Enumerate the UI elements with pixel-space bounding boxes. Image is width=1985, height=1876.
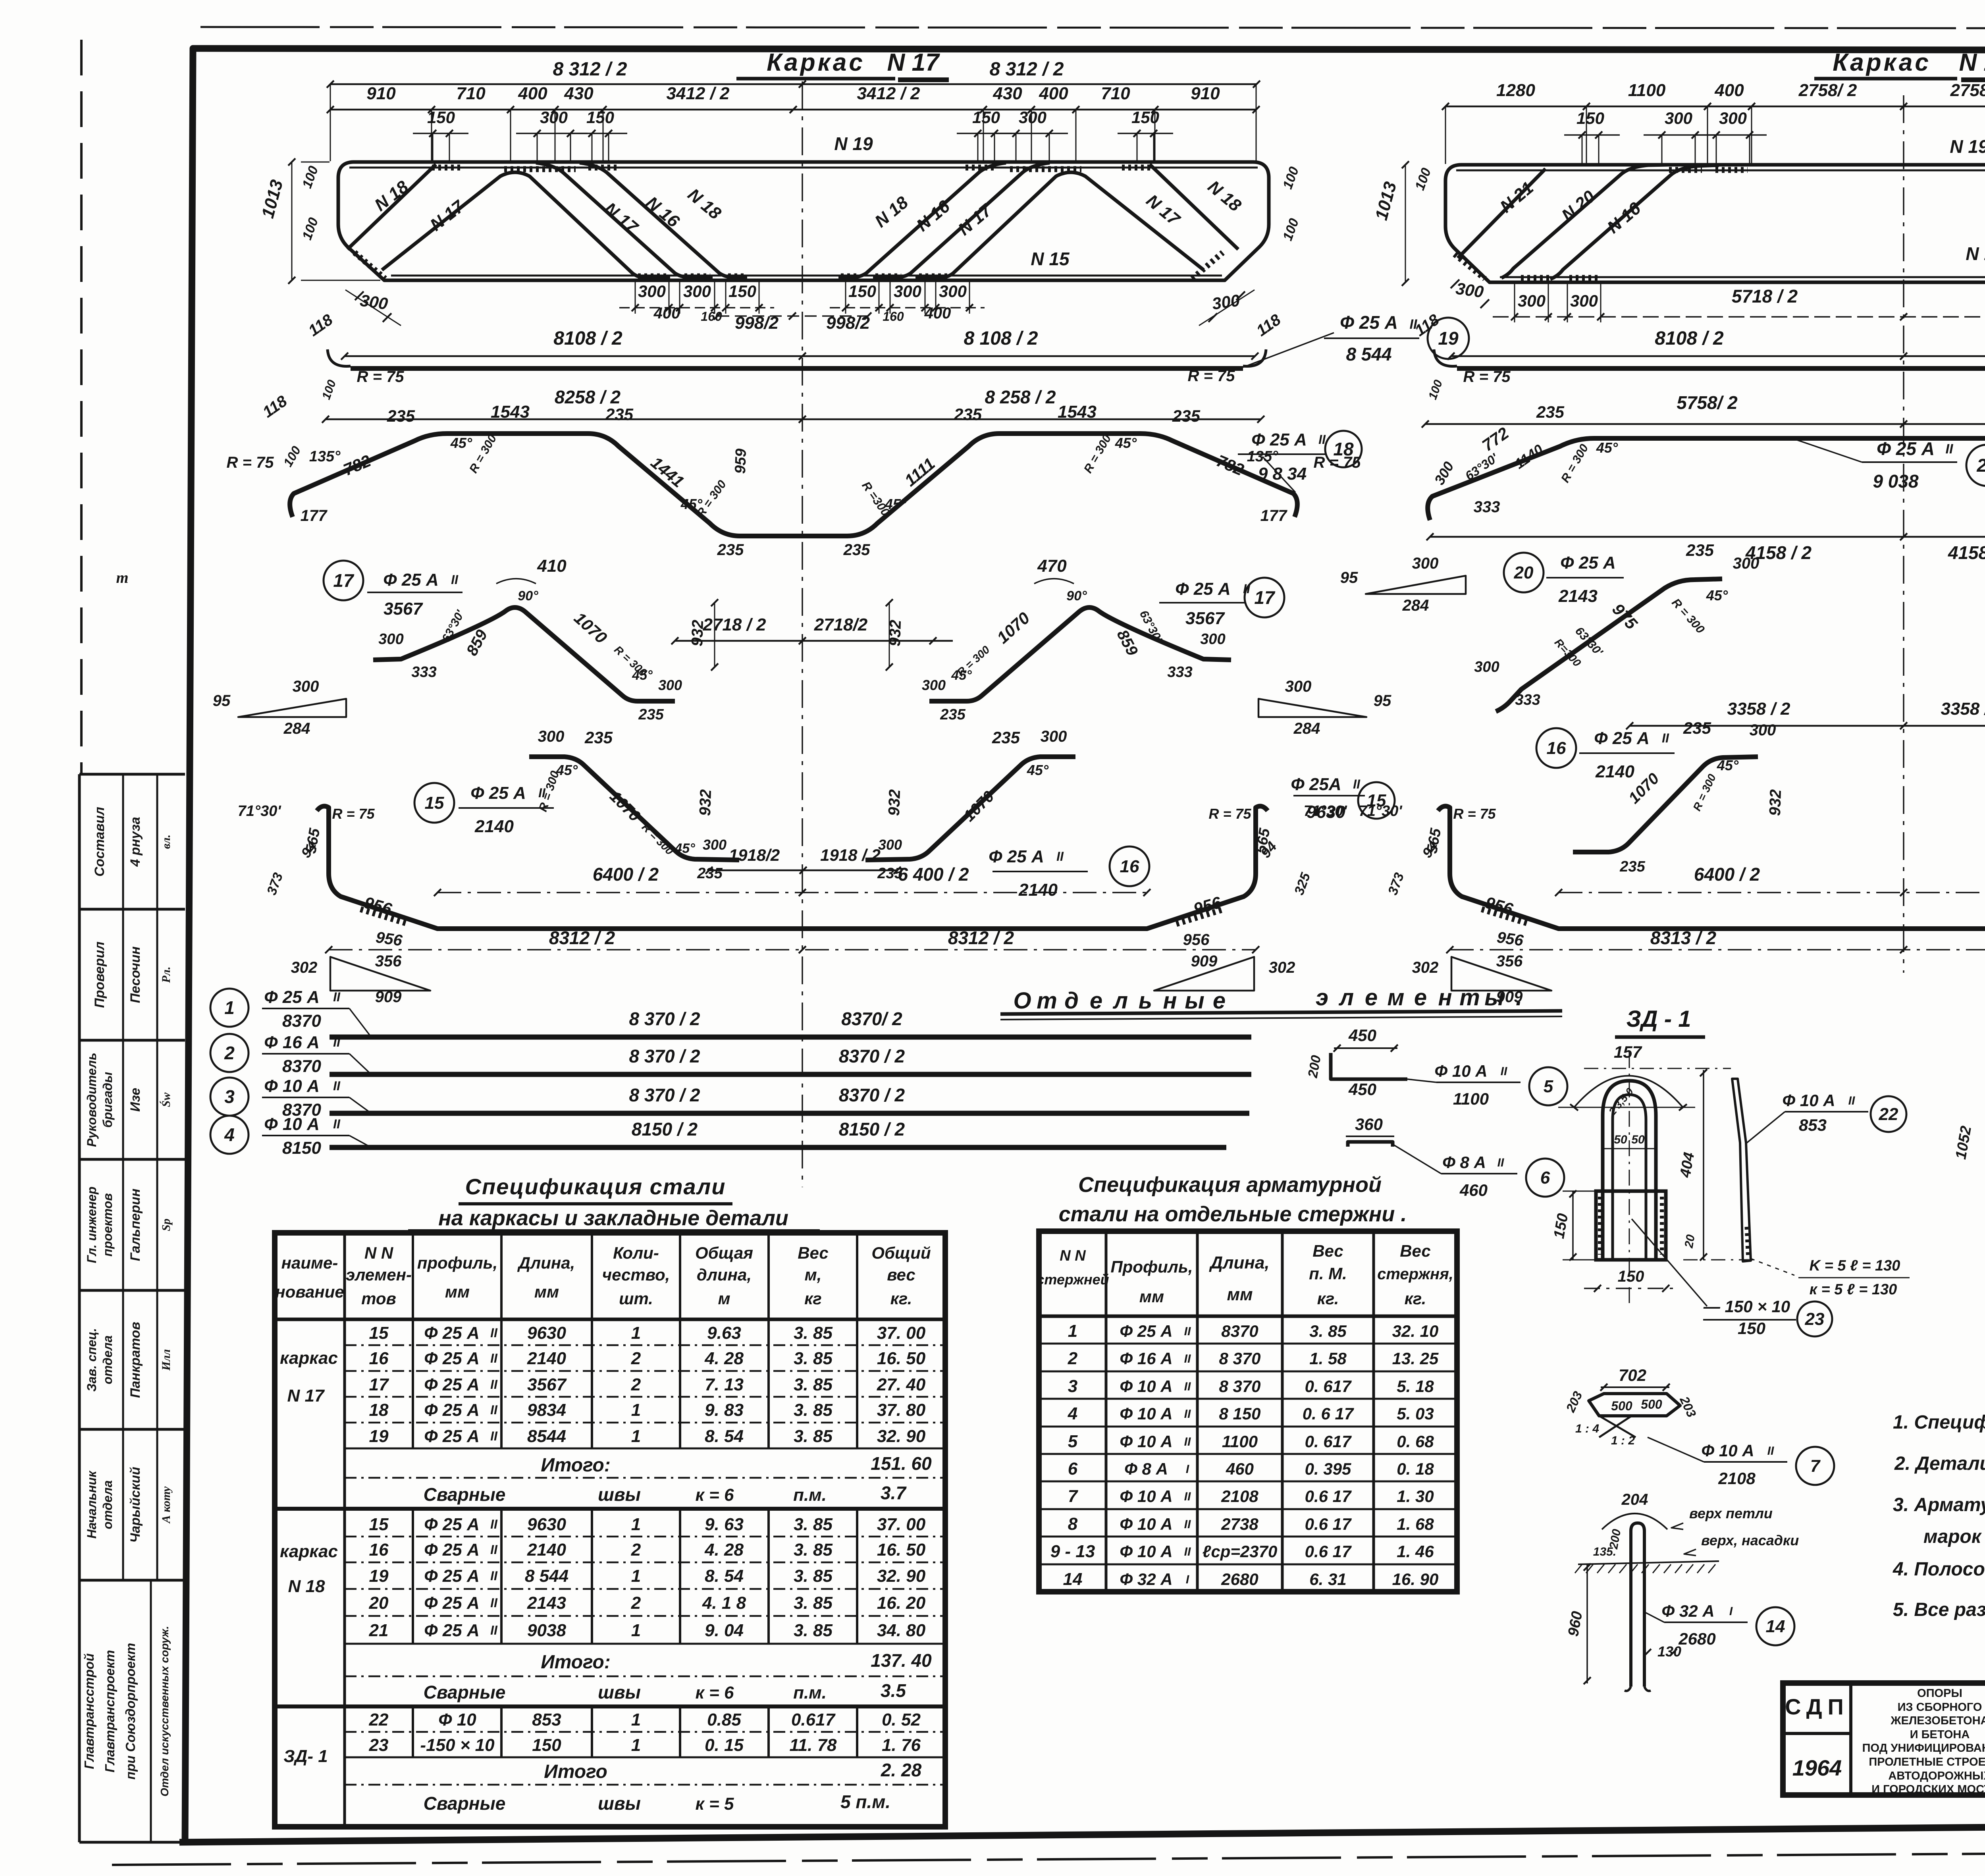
svg-text:3. 85: 3. 85 xyxy=(794,1593,833,1613)
svg-text:4: 4 xyxy=(1068,1404,1077,1423)
svg-text:элемен-: элемен- xyxy=(346,1265,412,1284)
svg-text:8 370 / 2: 8 370 / 2 xyxy=(629,1008,700,1029)
svg-text:2140: 2140 xyxy=(1595,762,1634,781)
svg-text:п.м.: п.м. xyxy=(793,1485,827,1505)
svg-text:N 15: N 15 xyxy=(1966,243,1985,264)
svg-text:8312 / 2: 8312 / 2 xyxy=(549,927,615,948)
svg-text:марок ВСт.3 и Ст.5 по ГОС: марок ВСт.3 и Ст.5 по ГОСТ 380 - 60 xyxy=(1923,1526,1985,1547)
svg-text:Ф 8 А: Ф 8 А xyxy=(1442,1153,1486,1172)
svg-text:356: 356 xyxy=(1496,952,1523,970)
svg-text:1100: 1100 xyxy=(1453,1089,1489,1108)
svg-text:0.6 17: 0.6 17 xyxy=(1305,1487,1352,1506)
svg-text:45°: 45° xyxy=(1027,762,1049,778)
svg-text:16. 20: 16. 20 xyxy=(877,1593,926,1613)
svg-text:95: 95 xyxy=(213,692,231,710)
svg-text:II: II xyxy=(1184,1352,1191,1365)
svg-text:Ф 16 А: Ф 16 А xyxy=(1120,1349,1172,1368)
svg-text:Ф 25 А: Ф 25 А xyxy=(1251,430,1307,449)
svg-text:вл.: вл. xyxy=(160,835,173,849)
svg-text:333: 333 xyxy=(1474,498,1500,516)
svg-text:Профиль,: Профиль, xyxy=(1110,1257,1193,1276)
svg-text:37. 00: 37. 00 xyxy=(877,1323,926,1343)
svg-text:Общая: Общая xyxy=(695,1244,753,1262)
svg-text:0. 6 17: 0. 6 17 xyxy=(1303,1404,1354,1423)
svg-text:45°: 45° xyxy=(1596,440,1618,456)
svg-text:м,: м, xyxy=(805,1265,822,1284)
svg-text:2: 2 xyxy=(224,1043,235,1063)
svg-text:R = 75: R = 75 xyxy=(1188,367,1235,385)
svg-text:N 17: N 17 xyxy=(887,49,940,76)
svg-text:бригады: бригады xyxy=(100,1072,115,1128)
svg-text:1: 1 xyxy=(224,997,235,1018)
svg-text:135°: 135° xyxy=(309,448,341,465)
svg-text:Ф 25 А: Ф 25 А xyxy=(383,570,439,590)
svg-text:8 544: 8 544 xyxy=(1346,344,1391,364)
svg-text:3358 / 2: 3358 / 2 xyxy=(1941,699,1985,719)
svg-text:Изе: Изе xyxy=(128,1088,143,1112)
svg-text:-150 × 10: -150 × 10 xyxy=(420,1735,495,1755)
svg-text:на каркасы и закладные де: на каркасы и закладные детали xyxy=(438,1206,788,1230)
svg-text:8 370 / 2: 8 370 / 2 xyxy=(629,1085,700,1105)
svg-text:И БЕТОНА: И БЕТОНА xyxy=(1910,1728,1970,1741)
svg-text:Ф 25 А: Ф 25 А xyxy=(424,1427,480,1446)
svg-text:II: II xyxy=(490,1429,498,1443)
svg-text:л: л xyxy=(1338,985,1354,1010)
svg-text:N 18: N 18 xyxy=(288,1577,325,1596)
svg-text:300: 300 xyxy=(1285,678,1312,695)
svg-text:2140: 2140 xyxy=(1018,880,1058,900)
svg-text:Главтрансстрой: Главтрансстрой xyxy=(82,1653,96,1769)
svg-text:450: 450 xyxy=(1348,1080,1376,1099)
svg-text:проектов: проектов xyxy=(100,1193,115,1257)
svg-text:333: 333 xyxy=(411,664,436,681)
svg-text:II: II xyxy=(1184,1545,1191,1558)
svg-text:I: I xyxy=(1186,1573,1189,1586)
svg-text:II: II xyxy=(490,1517,498,1531)
svg-text:Спецификация стали: Спецификация стали xyxy=(465,1174,726,1199)
svg-text:90°: 90° xyxy=(1066,588,1087,603)
svg-text:32. 10: 32. 10 xyxy=(1392,1322,1439,1340)
svg-text:0. 68: 0. 68 xyxy=(1397,1432,1434,1451)
svg-text:45°: 45° xyxy=(450,435,472,451)
svg-text:Гальперин: Гальперин xyxy=(128,1189,143,1261)
svg-text:956: 956 xyxy=(375,929,404,950)
svg-text:Гл. инженер: Гл. инженер xyxy=(85,1186,99,1263)
svg-text:45°: 45° xyxy=(674,841,695,856)
svg-text:профиль,: профиль, xyxy=(417,1253,498,1272)
svg-text:157: 157 xyxy=(1614,1043,1642,1061)
svg-text:1918 / 2: 1918 / 2 xyxy=(820,846,881,864)
svg-text:8544: 8544 xyxy=(527,1427,566,1446)
svg-text:Панкратов: Панкратов xyxy=(128,1322,143,1398)
svg-text:95: 95 xyxy=(1340,569,1358,586)
svg-text:20: 20 xyxy=(1514,563,1534,582)
svg-text:Коли-: Коли- xyxy=(613,1244,659,1262)
svg-text:Św: Św xyxy=(160,1092,173,1107)
svg-text:32. 90: 32. 90 xyxy=(877,1566,926,1586)
svg-text:Ф 32 А: Ф 32 А xyxy=(1661,1602,1714,1620)
svg-text:150: 150 xyxy=(1618,1268,1644,1285)
svg-text:Ф 8 А: Ф 8 А xyxy=(1124,1460,1168,1478)
svg-text:2140: 2140 xyxy=(474,817,514,836)
svg-text:Песочин: Песочин xyxy=(128,947,143,1003)
svg-text:2140: 2140 xyxy=(527,1540,566,1560)
svg-text:8313 / 2: 8313 / 2 xyxy=(1650,927,1717,948)
svg-text:1: 1 xyxy=(631,1735,641,1755)
svg-text:к = 5 ℓ = 130: к = 5 ℓ = 130 xyxy=(1810,1281,1897,1298)
svg-text:8258 / 2: 8258 / 2 xyxy=(555,387,621,407)
svg-text:ОПОРЫ: ОПОРЫ xyxy=(1917,1687,1962,1700)
svg-text:300: 300 xyxy=(1200,631,1225,648)
svg-text:450: 450 xyxy=(1348,1026,1376,1045)
svg-text:3567: 3567 xyxy=(384,599,423,619)
svg-text:Проверил: Проверил xyxy=(92,941,107,1008)
svg-text:Общий: Общий xyxy=(871,1244,931,1262)
svg-text:II: II xyxy=(333,1079,341,1093)
svg-text:932: 932 xyxy=(696,789,715,816)
svg-text:8370: 8370 xyxy=(282,1011,321,1031)
svg-text:ПРОЛЕТНЫЕ СТРОЕНИЯ: ПРОЛЕТНЫЕ СТРОЕНИЯ xyxy=(1869,1756,1985,1768)
svg-text:R = 75: R = 75 xyxy=(1208,806,1251,822)
svg-text:шт.: шт. xyxy=(619,1289,653,1308)
svg-text:Ф 32 А: Ф 32 А xyxy=(1120,1570,1172,1589)
svg-text:300: 300 xyxy=(638,282,666,301)
svg-text:ℓср=2370: ℓср=2370 xyxy=(1203,1542,1278,1561)
svg-text:235: 235 xyxy=(1686,541,1714,559)
svg-text:9 8 34: 9 8 34 xyxy=(1258,464,1307,484)
svg-text:1. 30: 1. 30 xyxy=(1397,1487,1434,1506)
svg-text:9834: 9834 xyxy=(527,1400,566,1420)
svg-text:АВТОДОРОЖНЫХ: АВТОДОРОЖНЫХ xyxy=(1888,1770,1985,1782)
svg-text:300: 300 xyxy=(1041,728,1067,745)
svg-text:Sp: Sp xyxy=(160,1219,173,1231)
svg-text:150: 150 xyxy=(1576,109,1604,127)
svg-text:9. 83: 9. 83 xyxy=(705,1400,744,1420)
svg-text:8: 8 xyxy=(1068,1514,1078,1534)
svg-text:9630: 9630 xyxy=(1307,802,1345,822)
svg-text:0.6 17: 0.6 17 xyxy=(1305,1542,1352,1561)
svg-text:ИЗ СБОРНОГО: ИЗ СБОРНОГО xyxy=(1898,1701,1982,1714)
svg-text:235: 235 xyxy=(843,541,870,559)
svg-text:1: 1 xyxy=(631,1427,641,1446)
svg-text:3. 85: 3. 85 xyxy=(794,1400,833,1420)
svg-text:9 038: 9 038 xyxy=(1873,471,1919,492)
svg-text:2108: 2108 xyxy=(1221,1487,1258,1506)
svg-text:15: 15 xyxy=(369,1515,389,1534)
svg-text:II: II xyxy=(333,1117,341,1131)
svg-text:7. 13: 7. 13 xyxy=(705,1375,744,1394)
svg-text:Руководитель: Руководитель xyxy=(85,1053,99,1147)
svg-text:959: 959 xyxy=(732,448,750,474)
svg-text:m: m xyxy=(116,569,128,586)
svg-text:II: II xyxy=(1243,582,1251,596)
svg-text:II: II xyxy=(1662,731,1669,745)
svg-text:235: 235 xyxy=(387,407,415,425)
svg-text:ЗД- 1: ЗД- 1 xyxy=(283,1747,328,1766)
svg-text:333: 333 xyxy=(1167,664,1192,681)
svg-text:300: 300 xyxy=(894,282,921,301)
svg-text:34. 80: 34. 80 xyxy=(877,1621,926,1640)
svg-text:400: 400 xyxy=(518,84,547,103)
svg-text:Ф 25 А: Ф 25 А xyxy=(424,1349,480,1368)
svg-text:верх, насадки: верх, насадки xyxy=(1701,1532,1799,1548)
svg-text:1: 1 xyxy=(1068,1321,1077,1341)
svg-text:300: 300 xyxy=(1665,109,1692,127)
svg-text:II: II xyxy=(1184,1407,1191,1421)
svg-text:3412 / 2: 3412 / 2 xyxy=(666,84,730,103)
svg-text:II: II xyxy=(1410,317,1418,332)
svg-text:Ф 10 А: Ф 10 А xyxy=(1120,1515,1172,1533)
svg-text:235: 235 xyxy=(1536,403,1565,421)
svg-text:Длина,: Длина, xyxy=(517,1253,575,1272)
svg-text:9.63: 9.63 xyxy=(707,1323,741,1343)
svg-text:300: 300 xyxy=(922,677,946,693)
svg-text:N 18: N 18 xyxy=(1959,49,1985,76)
svg-text:8 312 / 2: 8 312 / 2 xyxy=(990,59,1064,80)
svg-text:4: 4 xyxy=(224,1124,235,1145)
svg-text:мм: мм xyxy=(1139,1287,1164,1306)
svg-text:470: 470 xyxy=(1037,556,1067,576)
svg-text:стали на отдельные стержни: стали на отдельные стержни . xyxy=(1059,1202,1407,1226)
svg-text:Вес: Вес xyxy=(1312,1242,1343,1260)
svg-text:н: н xyxy=(1438,985,1452,1010)
svg-text:16: 16 xyxy=(369,1349,389,1368)
svg-text:II: II xyxy=(1184,1325,1191,1338)
svg-text:500: 500 xyxy=(1641,1397,1662,1411)
svg-text:II: II xyxy=(490,1542,498,1557)
svg-text:Ф 25 А: Ф 25 А xyxy=(1594,729,1650,748)
svg-text:19: 19 xyxy=(369,1427,389,1446)
svg-text:наиме-: наиме- xyxy=(281,1253,338,1272)
svg-text:8370/ 2: 8370/ 2 xyxy=(841,1008,902,1029)
svg-text:300: 300 xyxy=(1455,279,1485,301)
svg-text:6. 31: 6. 31 xyxy=(1309,1570,1346,1589)
svg-text:ЗД - 1: ЗД - 1 xyxy=(1627,1006,1691,1032)
svg-text:R = 75: R = 75 xyxy=(1453,806,1496,822)
svg-text:Ф 10 А: Ф 10 А xyxy=(1120,1377,1172,1396)
svg-text:177: 177 xyxy=(301,507,328,524)
svg-text:13. 25: 13. 25 xyxy=(1392,1349,1439,1368)
svg-text:н: н xyxy=(1163,988,1177,1014)
svg-text:Спецификация арматурной: Спецификация арматурной xyxy=(1078,1173,1382,1197)
svg-text:9. 63: 9. 63 xyxy=(705,1515,744,1534)
svg-text:300: 300 xyxy=(1474,659,1499,675)
svg-text:8150 / 2: 8150 / 2 xyxy=(632,1119,698,1139)
svg-text:8370 / 2: 8370 / 2 xyxy=(839,1085,905,1105)
svg-text:1: 1 xyxy=(631,1323,641,1343)
svg-text:2143: 2143 xyxy=(1558,586,1598,606)
svg-text:302: 302 xyxy=(1269,959,1295,976)
svg-text:18: 18 xyxy=(1333,439,1354,459)
svg-text:к = 5: к = 5 xyxy=(696,1794,734,1814)
svg-text:235: 235 xyxy=(1683,719,1711,737)
svg-text:910: 910 xyxy=(1191,84,1220,103)
svg-text:9. 04: 9. 04 xyxy=(705,1621,744,1640)
svg-text:8. 54: 8. 54 xyxy=(705,1427,744,1446)
svg-text:1. Спецификация арматуры по: 1. Спецификация арматуры подферменников … xyxy=(1893,1412,1985,1433)
svg-text:4 рнуза: 4 рнуза xyxy=(128,817,143,867)
svg-text:R = 75: R = 75 xyxy=(227,454,274,471)
svg-text:7: 7 xyxy=(1810,1456,1821,1476)
svg-text:3. 85: 3. 85 xyxy=(794,1375,833,1394)
svg-text:т: т xyxy=(1037,988,1057,1014)
svg-text:7: 7 xyxy=(1068,1487,1079,1506)
svg-text:2758/ 2: 2758/ 2 xyxy=(1798,81,1857,100)
svg-text:27. 40: 27. 40 xyxy=(877,1375,926,1394)
svg-text:Ф 25 А: Ф 25 А xyxy=(1175,579,1231,599)
svg-text:II: II xyxy=(490,1377,498,1392)
svg-text:8 544: 8 544 xyxy=(525,1566,569,1586)
svg-text:II: II xyxy=(490,1596,498,1610)
svg-text:0. 18: 0. 18 xyxy=(1397,1460,1434,1478)
svg-text:15: 15 xyxy=(425,793,444,813)
svg-text:853: 853 xyxy=(1799,1116,1827,1134)
svg-text:1 : 4: 1 : 4 xyxy=(1575,1422,1599,1435)
svg-text:Ф 16 А: Ф 16 А xyxy=(264,1033,320,1052)
svg-text:R = 75: R = 75 xyxy=(1463,368,1511,386)
svg-text:Ф 25 А: Ф 25 А xyxy=(989,847,1044,866)
svg-text:4. Полосовая сталь по Г: 4. Полосовая сталь по ГОСТ 103 - 57, мар… xyxy=(1892,1559,1985,1580)
svg-text:Сварные: Сварные xyxy=(424,1682,506,1702)
svg-text:32. 90: 32. 90 xyxy=(877,1427,926,1446)
svg-text:Ф 10 А: Ф 10 А xyxy=(264,1076,320,1096)
svg-text:3.5: 3.5 xyxy=(881,1680,906,1701)
svg-text:Ф 25 А: Ф 25 А xyxy=(264,987,320,1007)
svg-text:мм: мм xyxy=(445,1282,470,1301)
svg-text:е: е xyxy=(1090,988,1102,1014)
svg-text:0.617: 0.617 xyxy=(791,1710,836,1729)
svg-text:2. Детали сварки арматурных: 2. Детали сварки арматурных каркасов дан… xyxy=(1894,1453,1985,1474)
svg-text:9630: 9630 xyxy=(527,1323,566,1343)
svg-text:37. 80: 37. 80 xyxy=(877,1400,926,1420)
svg-text:I: I xyxy=(1186,1463,1189,1476)
svg-text:п.м.: п.м. xyxy=(793,1683,827,1702)
svg-text:Ф 10 А: Ф 10 А xyxy=(1120,1487,1172,1506)
svg-text:при Союздорпроект: при Союздорпроект xyxy=(123,1643,138,1780)
svg-text:1964: 1964 xyxy=(1792,1755,1842,1780)
svg-text:3412 / 2: 3412 / 2 xyxy=(857,84,920,103)
svg-text:500: 500 xyxy=(1611,1399,1632,1413)
svg-text:360: 360 xyxy=(1355,1115,1383,1134)
svg-text:150: 150 xyxy=(728,282,756,301)
svg-text:3. 85: 3. 85 xyxy=(1309,1322,1347,1340)
svg-text:8 258 / 2: 8 258 / 2 xyxy=(985,387,1056,407)
svg-text:4. 28: 4. 28 xyxy=(704,1540,744,1560)
svg-text:300: 300 xyxy=(1570,291,1598,310)
svg-text:16: 16 xyxy=(1547,738,1566,758)
svg-text:300: 300 xyxy=(1412,555,1439,572)
svg-text:2718 / 2: 2718 / 2 xyxy=(702,615,766,634)
svg-text:Ф 25 А: Ф 25 А xyxy=(424,1540,480,1560)
svg-text:235: 235 xyxy=(697,865,723,882)
svg-text:ь: ь xyxy=(1139,988,1152,1014)
svg-text:6 400 / 2: 6 400 / 2 xyxy=(898,864,969,885)
svg-text:300: 300 xyxy=(1019,108,1046,127)
svg-text:16: 16 xyxy=(1120,857,1139,876)
svg-text:1: 1 xyxy=(631,1400,641,1420)
svg-text:II: II xyxy=(490,1623,498,1637)
svg-text:Ф 25 А: Ф 25 А xyxy=(424,1400,480,1420)
svg-text:II: II xyxy=(490,1403,498,1417)
svg-text:II: II xyxy=(1767,1444,1774,1458)
svg-text:90°: 90° xyxy=(518,588,538,603)
svg-text:И ГОРОДСКИХ МОСТОВ: И ГОРОДСКИХ МОСТОВ xyxy=(1871,1783,1985,1796)
svg-text:N N: N N xyxy=(364,1244,394,1262)
svg-text:мм: мм xyxy=(1227,1285,1253,1304)
svg-text:2718/2: 2718/2 xyxy=(814,615,868,634)
svg-text:400: 400 xyxy=(1714,81,1744,100)
svg-text:50: 50 xyxy=(1631,1133,1645,1146)
svg-text:швы: швы xyxy=(598,1682,641,1702)
svg-text:8108 / 2: 8108 / 2 xyxy=(1655,328,1724,349)
svg-text:300: 300 xyxy=(378,631,403,648)
svg-text:0. 617: 0. 617 xyxy=(1305,1377,1352,1396)
svg-text:тов: тов xyxy=(361,1289,396,1308)
svg-text:2758/ 2: 2758/ 2 xyxy=(1950,81,1985,100)
svg-text:300: 300 xyxy=(293,678,319,695)
svg-text:Ф 25 А: Ф 25 А xyxy=(1560,553,1616,573)
svg-text:3. 85: 3. 85 xyxy=(794,1515,833,1534)
svg-text:3. 85: 3. 85 xyxy=(794,1540,833,1560)
svg-text:2. 28: 2. 28 xyxy=(881,1760,922,1780)
svg-text:400: 400 xyxy=(924,305,951,322)
svg-text:4158 / 2: 4158 / 2 xyxy=(1948,542,1985,563)
svg-text:Рл.: Рл. xyxy=(160,966,173,983)
svg-text:1. 46: 1. 46 xyxy=(1397,1542,1434,1561)
svg-text:э: э xyxy=(1316,985,1328,1010)
svg-text:460: 460 xyxy=(1459,1181,1488,1199)
svg-text:956: 956 xyxy=(1183,931,1210,949)
svg-text:130: 130 xyxy=(1657,1643,1681,1660)
svg-text:6400 / 2: 6400 / 2 xyxy=(593,864,659,885)
svg-text:300: 300 xyxy=(703,837,727,853)
svg-text:909: 909 xyxy=(1191,952,1218,970)
svg-text:Итого:: Итого: xyxy=(541,1652,611,1673)
svg-text:14: 14 xyxy=(1063,1569,1083,1589)
svg-text:956: 956 xyxy=(1496,929,1525,950)
svg-text:ы: ы xyxy=(1484,985,1504,1010)
svg-text:Ф 25А: Ф 25А xyxy=(1291,775,1341,794)
svg-text:8370: 8370 xyxy=(1221,1322,1258,1340)
svg-text:N 15: N 15 xyxy=(1031,249,1070,269)
svg-text:150: 150 xyxy=(532,1735,561,1755)
svg-text:8370 / 2: 8370 / 2 xyxy=(839,1046,905,1066)
svg-text:каркас: каркас xyxy=(280,1348,338,1368)
svg-text:II: II xyxy=(333,990,341,1004)
svg-text:21: 21 xyxy=(1976,455,1985,476)
svg-text:150: 150 xyxy=(586,108,614,127)
svg-text:8108 / 2: 8108 / 2 xyxy=(553,328,622,349)
svg-text:л: л xyxy=(1112,988,1128,1014)
svg-text:N 19: N 19 xyxy=(1950,136,1985,157)
svg-text:14: 14 xyxy=(1766,1617,1785,1636)
svg-text:ЖЕЛЕЗОБЕТОНА: ЖЕЛЕЗОБЕТОНА xyxy=(1890,1714,1985,1727)
svg-text:2143: 2143 xyxy=(527,1593,566,1613)
svg-text:отдела: отдела xyxy=(100,1335,115,1384)
svg-text:— 150 × 10: — 150 × 10 xyxy=(1703,1297,1790,1316)
svg-text:3. 85: 3. 85 xyxy=(794,1566,833,1586)
svg-text:3358 / 2: 3358 / 2 xyxy=(1727,699,1790,719)
svg-text:300: 300 xyxy=(1733,555,1760,572)
svg-text:II: II xyxy=(1184,1435,1191,1448)
svg-text:II: II xyxy=(1497,1156,1504,1169)
svg-text:Каркас: Каркас xyxy=(767,49,865,76)
svg-text:п. М.: п. М. xyxy=(1309,1264,1347,1283)
svg-text:Ф 10 А: Ф 10 А xyxy=(264,1114,320,1134)
svg-text:II: II xyxy=(1184,1518,1191,1531)
svg-text:1 : 2: 1 : 2 xyxy=(1611,1434,1635,1447)
svg-text:стержней: стержней xyxy=(1036,1271,1109,1288)
